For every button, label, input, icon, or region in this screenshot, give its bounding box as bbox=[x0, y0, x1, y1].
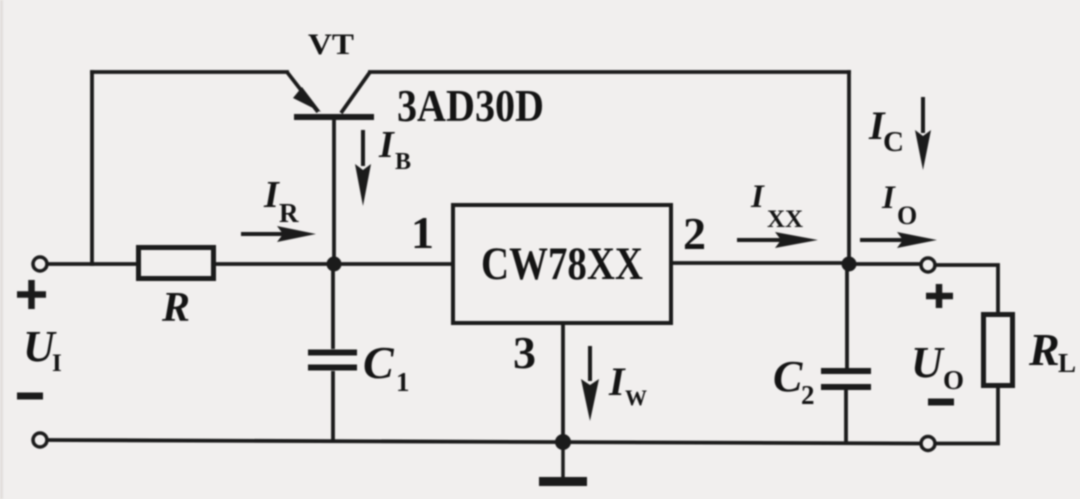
svg-text:C: C bbox=[883, 126, 904, 158]
current arrow IW bbox=[581, 346, 647, 421]
svg-text:W: W bbox=[625, 385, 647, 410]
wire: bottom rail bbox=[47, 440, 920, 444]
svg-text:3: 3 bbox=[513, 327, 536, 378]
svg-text:O: O bbox=[943, 365, 964, 395]
junction: output node bbox=[842, 257, 857, 272]
capacitor C1 bbox=[308, 264, 357, 441]
current arrow IB bbox=[355, 124, 411, 206]
wire: top horizontal (left, to emitter of VT) bbox=[92, 70, 287, 74]
wire: base lead vertical down to node 1 bbox=[332, 120, 336, 264]
svg-text:R: R bbox=[161, 285, 190, 331]
current arrow IC bbox=[868, 97, 931, 170]
transistor VT (PNP 3AD30D): emitter arrow, base bar, collector bbox=[287, 72, 374, 117]
wire: CW78XX pin 2 to output node bbox=[671, 261, 849, 265]
junction: node 1 bbox=[327, 257, 342, 272]
svg-text:O: O bbox=[897, 201, 917, 230]
current arrow IR bbox=[241, 174, 316, 242]
polarity + (input) bbox=[17, 280, 46, 309]
terminal: input - (open circle) bbox=[33, 433, 47, 447]
svg-text:I: I bbox=[881, 180, 896, 216]
wire: RL bottom down and left to output - terminal bbox=[936, 388, 998, 444]
svg-text:VT: VT bbox=[308, 28, 354, 61]
svg-text:R: R bbox=[1028, 324, 1060, 375]
svg-text:I: I bbox=[608, 359, 626, 404]
polarity + (output) bbox=[926, 284, 953, 308]
svg-text:2: 2 bbox=[683, 208, 706, 259]
wire: output + terminal right and down to RL top bbox=[936, 265, 998, 312]
svg-text:CW78XX: CW78XX bbox=[481, 238, 643, 290]
wire: output node to output + terminal bbox=[849, 262, 920, 266]
polarity - (output) bbox=[928, 399, 954, 406]
terminal: input + (open circle) bbox=[33, 257, 47, 271]
svg-text:U: U bbox=[911, 338, 945, 387]
wire: right vertical collector drop to output node bbox=[847, 72, 851, 264]
wire: top horizontal (right, from collector of VT to output drop) bbox=[370, 70, 849, 74]
ground symbol bbox=[539, 442, 587, 482]
svg-text:C: C bbox=[773, 352, 803, 401]
wire: input + terminal to resistor R bbox=[47, 262, 139, 266]
polarity - (input) bbox=[17, 393, 43, 400]
svg-text:1: 1 bbox=[396, 367, 410, 397]
capacitor C2 bbox=[821, 264, 871, 443]
svg-text:I: I bbox=[52, 350, 62, 377]
svg-text:I: I bbox=[750, 179, 765, 215]
current arrow IO bbox=[860, 180, 937, 248]
terminal: output - (open circle) bbox=[921, 437, 935, 451]
IC CW78XX box bbox=[453, 205, 671, 323]
terminal: output + (open circle) bbox=[921, 258, 935, 272]
wire: resistor R to node 1 bbox=[216, 262, 334, 266]
svg-text:XX: XX bbox=[767, 206, 803, 233]
resistor R bbox=[139, 248, 214, 279]
svg-text:R: R bbox=[279, 198, 299, 228]
svg-text:C: C bbox=[363, 337, 395, 388]
svg-text:2: 2 bbox=[801, 380, 815, 410]
svg-text:3AD30D: 3AD30D bbox=[397, 81, 544, 131]
wire: CW78XX pin 3 down to ground node bbox=[561, 323, 565, 442]
junction: ground node bbox=[555, 434, 571, 450]
current arrow IXX bbox=[737, 179, 818, 248]
svg-text:B: B bbox=[395, 149, 411, 175]
wire: node 1 to CW78XX pin 1 bbox=[334, 262, 453, 266]
svg-text:1: 1 bbox=[411, 207, 434, 258]
svg-text:L: L bbox=[1058, 348, 1076, 378]
wire: top-left vertical from corner down to input rail bbox=[90, 72, 94, 264]
svg-text:I: I bbox=[378, 124, 395, 166]
svg-text:I: I bbox=[263, 174, 280, 216]
resistor RL bbox=[984, 315, 1013, 386]
